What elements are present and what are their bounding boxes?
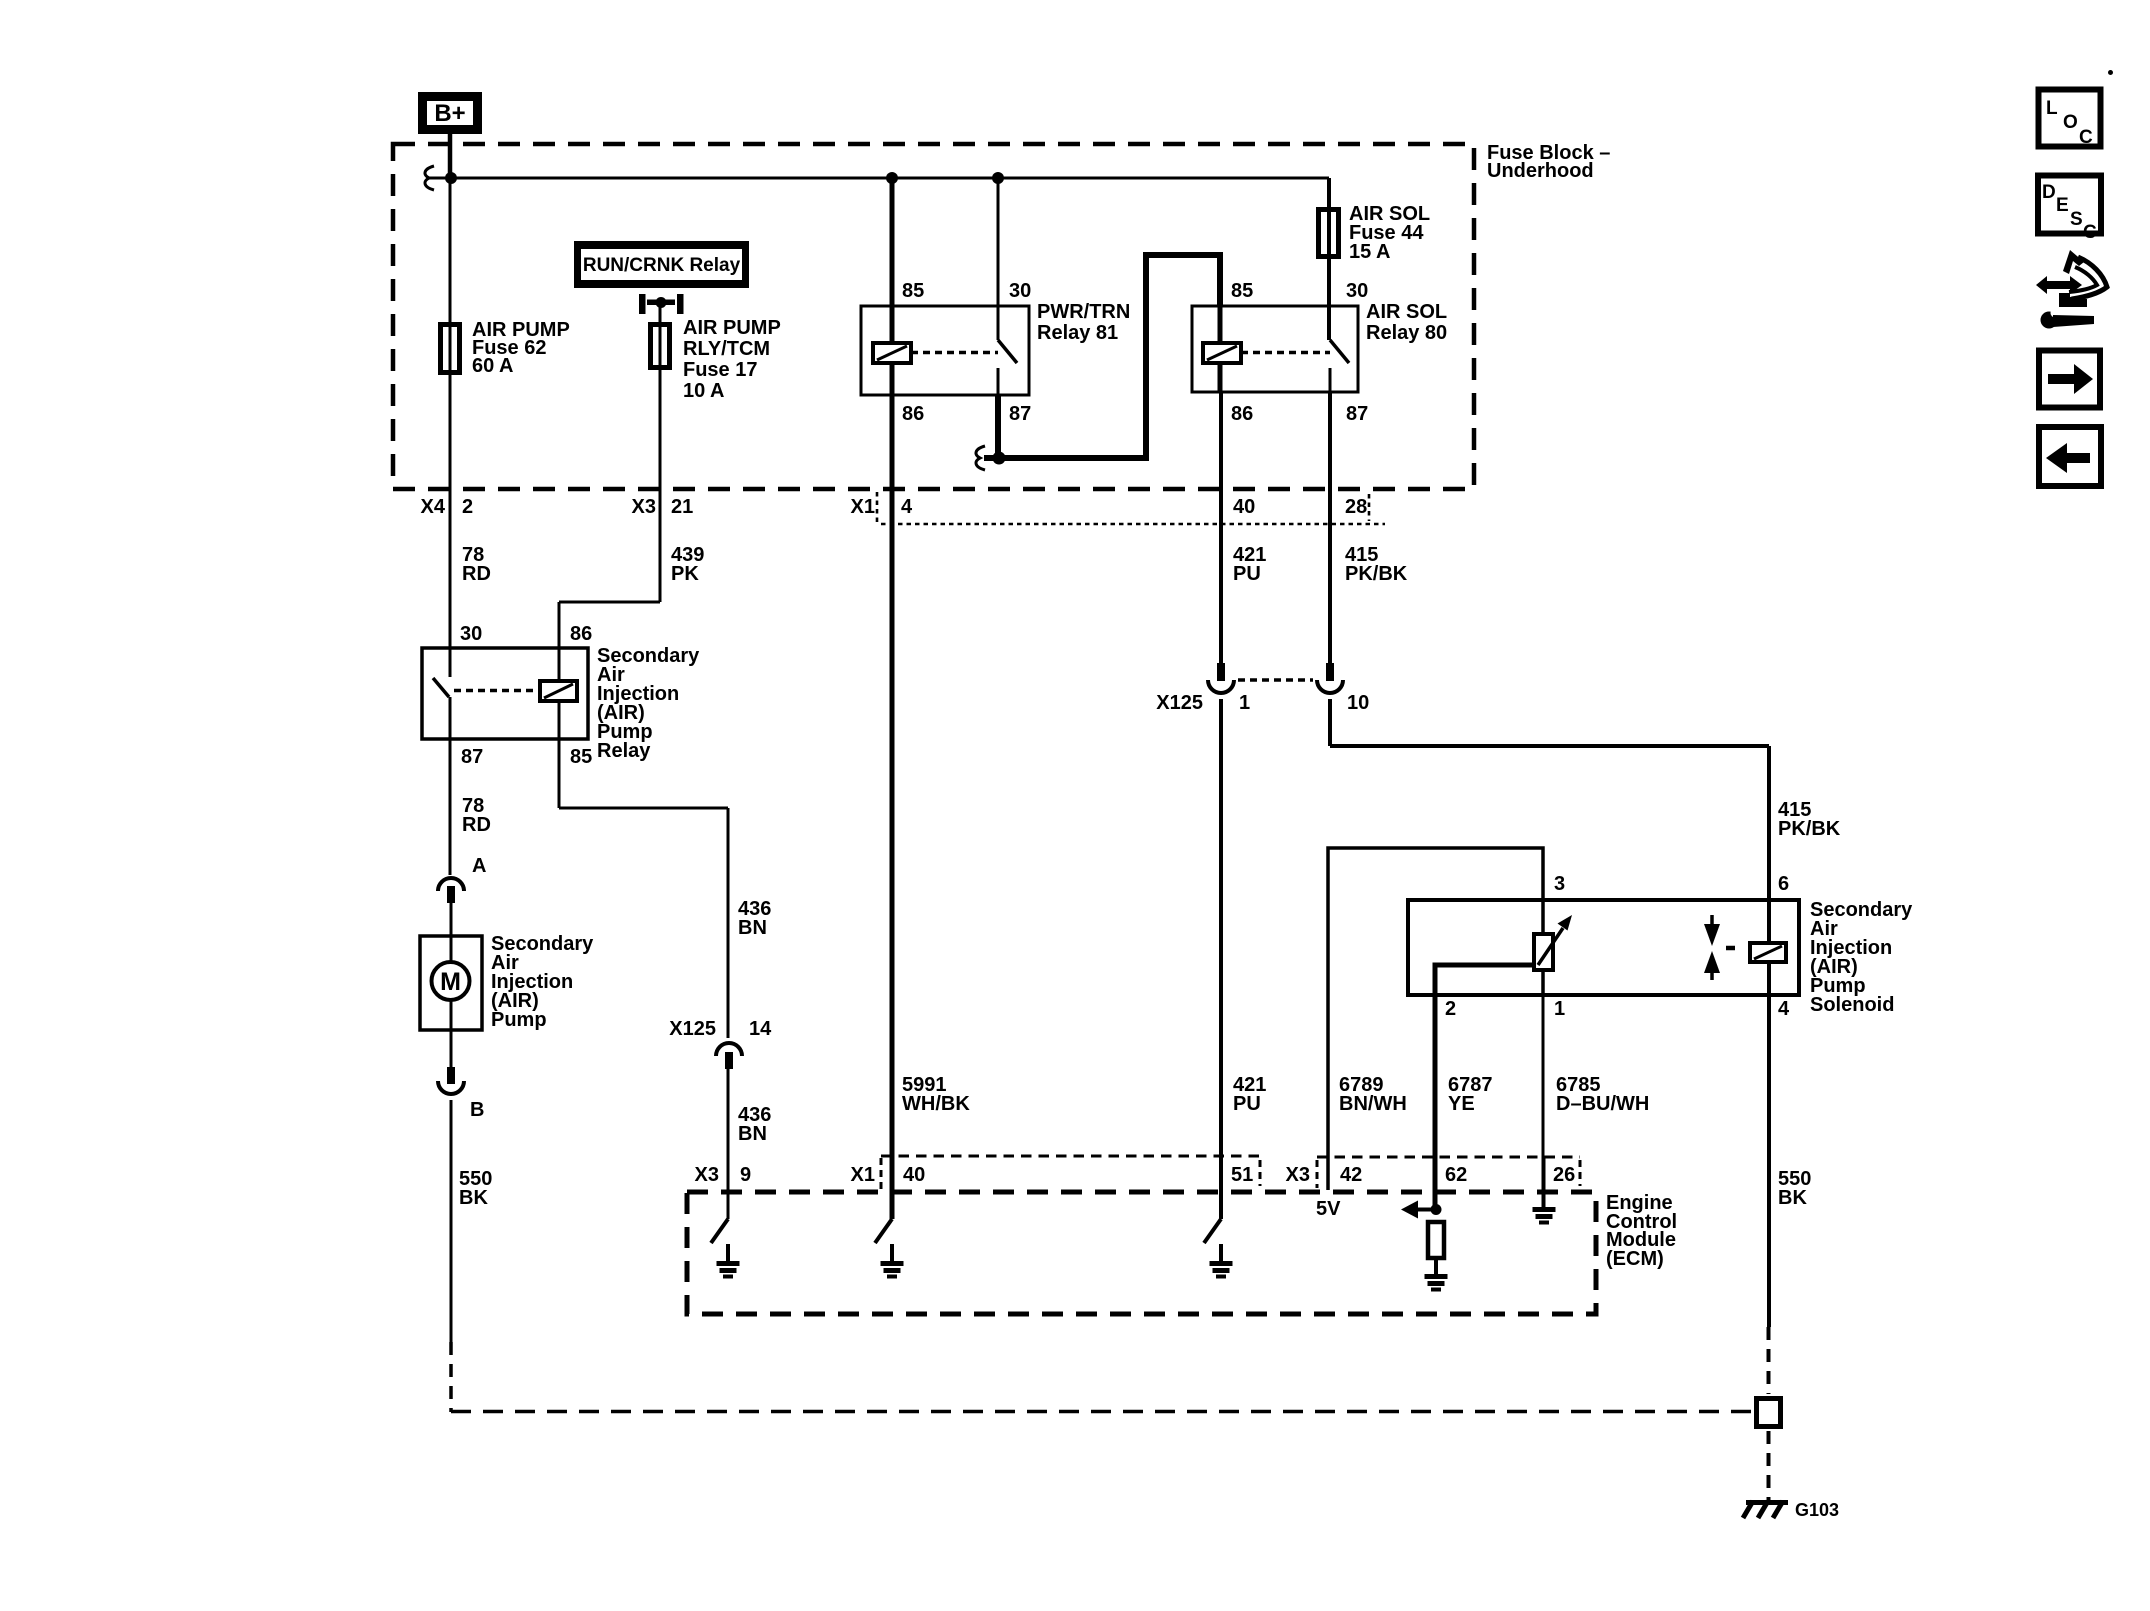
svg-text:Fuse 17: Fuse 17 <box>683 359 757 381</box>
svg-text:6: 6 <box>1778 873 1789 895</box>
svg-text:A: A <box>472 855 486 877</box>
svg-text:B: B <box>470 1099 484 1121</box>
svg-text:PWR/TRN: PWR/TRN <box>1037 301 1130 323</box>
svg-text:RD: RD <box>462 814 491 836</box>
svg-text:RUN/CRNK Relay: RUN/CRNK Relay <box>583 255 741 276</box>
svg-text:86: 86 <box>570 623 592 645</box>
svg-text:E: E <box>2056 195 2069 216</box>
svg-text:28: 28 <box>1345 496 1367 518</box>
svg-text:(ECM): (ECM) <box>1606 1248 1664 1270</box>
svg-text:40: 40 <box>903 1164 925 1186</box>
svg-text:WH/BK: WH/BK <box>902 1093 970 1115</box>
svg-text:Solenoid: Solenoid <box>1810 994 1894 1016</box>
svg-text:2: 2 <box>462 496 473 518</box>
svg-text:Relay 81: Relay 81 <box>1037 322 1118 344</box>
svg-text:S: S <box>2070 209 2083 230</box>
svg-text:X3: X3 <box>1286 1164 1310 1186</box>
svg-text:21: 21 <box>671 496 693 518</box>
svg-text:YE: YE <box>1448 1093 1475 1115</box>
svg-text:BN: BN <box>738 1123 767 1145</box>
svg-text:15 A: 15 A <box>1349 241 1391 263</box>
svg-text:4: 4 <box>901 496 913 518</box>
svg-text:AIR PUMP: AIR PUMP <box>683 317 781 339</box>
svg-text:PU: PU <box>1233 1093 1261 1115</box>
svg-text:C: C <box>2079 127 2093 148</box>
svg-text:86: 86 <box>902 403 924 425</box>
svg-text:Relay 80: Relay 80 <box>1366 322 1447 344</box>
svg-text:51: 51 <box>1231 1164 1253 1186</box>
svg-text:BK: BK <box>459 1187 488 1209</box>
svg-text:60 A: 60 A <box>472 355 514 377</box>
svg-text:PK/BK: PK/BK <box>1345 563 1408 585</box>
svg-text:14: 14 <box>749 1018 772 1040</box>
svg-text:RLY/TCM: RLY/TCM <box>683 338 770 360</box>
svg-text:D–BU/WH: D–BU/WH <box>1556 1093 1649 1115</box>
svg-text:C: C <box>2083 222 2097 243</box>
svg-text:87: 87 <box>1346 403 1368 425</box>
svg-text:X1: X1 <box>851 496 875 518</box>
svg-text:30: 30 <box>1009 280 1031 302</box>
svg-text:85: 85 <box>570 746 592 768</box>
svg-text:RD: RD <box>462 563 491 585</box>
svg-text:86: 86 <box>1231 403 1253 425</box>
svg-text:L: L <box>2046 98 2058 119</box>
svg-text:85: 85 <box>902 280 924 302</box>
svg-text:O: O <box>2063 112 2078 133</box>
svg-text:PU: PU <box>1233 563 1261 585</box>
svg-text:X3: X3 <box>632 496 656 518</box>
svg-text:87: 87 <box>1009 403 1031 425</box>
svg-text:2: 2 <box>1445 998 1456 1020</box>
svg-text:M: M <box>440 968 461 996</box>
svg-text:D: D <box>2042 182 2056 203</box>
svg-text:4: 4 <box>1778 998 1790 1020</box>
svg-text:G103: G103 <box>1795 1500 1839 1520</box>
svg-text:B+: B+ <box>434 100 465 127</box>
svg-text:30: 30 <box>460 623 482 645</box>
svg-text:PK: PK <box>671 563 699 585</box>
svg-text:85: 85 <box>1231 280 1253 302</box>
svg-text:X125: X125 <box>669 1018 716 1040</box>
svg-text:30: 30 <box>1346 280 1368 302</box>
svg-text:Pump: Pump <box>491 1009 547 1031</box>
svg-text:3: 3 <box>1554 873 1565 895</box>
svg-text:AIR SOL: AIR SOL <box>1366 301 1447 323</box>
svg-text:Relay: Relay <box>597 740 651 762</box>
svg-text:BK: BK <box>1778 1187 1807 1209</box>
svg-text:Underhood: Underhood <box>1487 160 1594 182</box>
svg-text:62: 62 <box>1445 1164 1467 1186</box>
svg-text:1: 1 <box>1239 692 1250 714</box>
svg-text:1: 1 <box>1554 998 1565 1020</box>
svg-text:87: 87 <box>461 746 483 768</box>
svg-text:42: 42 <box>1340 1164 1362 1186</box>
svg-text:BN: BN <box>738 917 767 939</box>
svg-text:40: 40 <box>1233 496 1255 518</box>
svg-text:BN/WH: BN/WH <box>1339 1093 1407 1115</box>
svg-text:10 A: 10 A <box>683 380 725 402</box>
svg-text:X4: X4 <box>421 496 446 518</box>
svg-text:X1: X1 <box>851 1164 875 1186</box>
svg-text:X125: X125 <box>1156 692 1203 714</box>
svg-text:X3: X3 <box>695 1164 719 1186</box>
svg-text:10: 10 <box>1347 692 1369 714</box>
svg-text:9: 9 <box>740 1164 751 1186</box>
svg-text:PK/BK: PK/BK <box>1778 818 1841 840</box>
svg-text:26: 26 <box>1553 1164 1575 1186</box>
svg-text:5V: 5V <box>1316 1198 1341 1220</box>
